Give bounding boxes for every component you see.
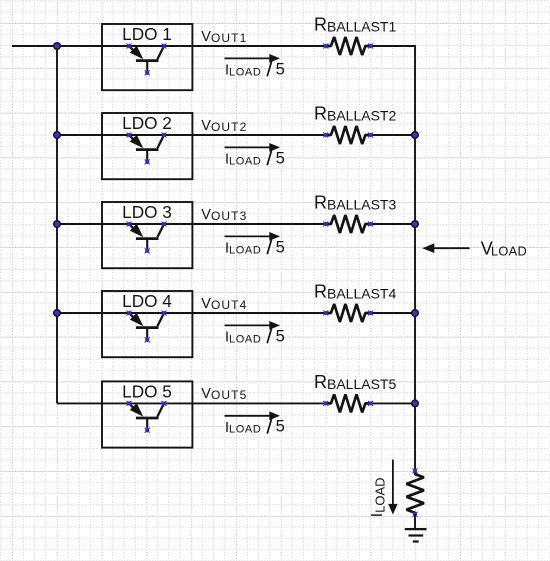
pin marker Q4 collector bbox=[162, 311, 167, 316]
wire row 5 horizontal bbox=[57, 402, 326, 404]
ground bbox=[405, 529, 427, 541]
pin marker Q4 base bbox=[145, 337, 150, 342]
svg-text:VOUT3: VOUT3 bbox=[201, 207, 247, 223]
svg-text:VOUT1: VOUT1 bbox=[201, 29, 247, 45]
pin marker RBALLAST4 left bbox=[323, 311, 328, 316]
wire left input rail bbox=[56, 46, 58, 403]
pin marker RBALLAST2 right bbox=[368, 133, 373, 138]
svg-text:5: 5 bbox=[276, 59, 285, 78]
label ILOAD/5 row 2 bbox=[225, 148, 285, 167]
current arrow ILOAD/5 row 1 bbox=[225, 54, 281, 63]
resistor RBALLAST4 bbox=[326, 304, 371, 322]
pin marker Q2 base bbox=[145, 159, 150, 164]
svg-text:LDO 1: LDO 1 bbox=[122, 24, 172, 44]
transistor Q4 (PNP pass device) bbox=[129, 313, 164, 338]
pin marker RBALLAST4 right bbox=[368, 311, 373, 316]
wire row 1 horizontal bbox=[57, 45, 326, 47]
LDO 3 block U3 bbox=[102, 202, 192, 268]
wire row 2 horizontal bbox=[57, 134, 326, 136]
pin marker RBALLAST3 right bbox=[368, 222, 373, 227]
current arrow ILOAD/5 row 5 bbox=[225, 411, 281, 420]
svg-text:5: 5 bbox=[276, 148, 285, 167]
pin marker Q5 collector bbox=[162, 401, 167, 406]
pin marker Q3 base bbox=[145, 248, 150, 253]
LDO 4 block U4 bbox=[102, 291, 192, 357]
svg-text:VOUT4: VOUT4 bbox=[201, 296, 247, 312]
pin marker Q2 collector bbox=[162, 133, 167, 138]
junction right bus row 5 bbox=[411, 399, 419, 407]
wire row 1 resistor to bus bbox=[371, 45, 416, 47]
pin marker RLOAD top bbox=[413, 468, 418, 473]
current arrow ILOAD/5 row 3 bbox=[225, 232, 281, 241]
resistor RBALLAST5 bbox=[326, 394, 371, 412]
wire row 3 horizontal bbox=[57, 223, 326, 225]
label ILOAD/5 row 1 bbox=[225, 59, 285, 78]
pin marker Q1 collector bbox=[162, 44, 167, 49]
wire right VLOAD bus bbox=[414, 46, 416, 472]
pin marker RBALLAST1 right bbox=[368, 44, 373, 49]
svg-text:ILOAD: ILOAD bbox=[369, 477, 388, 517]
arrow VLOAD bbox=[422, 243, 469, 253]
pin marker Q3 emitter bbox=[127, 222, 132, 227]
wire row 4 resistor to bus bbox=[371, 312, 416, 314]
svg-text:VOUT5: VOUT5 bbox=[201, 386, 247, 402]
junction left rail row 2 bbox=[53, 131, 61, 139]
pin marker RLOAD bottom bbox=[413, 512, 418, 517]
pin marker Q5 base bbox=[145, 428, 150, 433]
pin marker RBALLAST3 left bbox=[323, 222, 328, 227]
junction right bus row 4 bbox=[411, 309, 419, 317]
wire row 2 resistor to bus bbox=[371, 134, 416, 136]
current arrow ILOAD bbox=[388, 460, 397, 515]
wire row 4 horizontal bbox=[57, 312, 326, 314]
transistor Q1 (PNP pass device) bbox=[129, 46, 164, 71]
pin marker Q2 emitter bbox=[127, 133, 132, 138]
label ILOAD/5 row 5 bbox=[225, 417, 285, 436]
junction right bus row 2 bbox=[411, 131, 419, 139]
transistor Q5 (PNP pass device) bbox=[129, 403, 164, 428]
junction right bus row 3 bbox=[411, 220, 419, 228]
wire row 3 resistor to bus bbox=[371, 223, 416, 225]
LDO 1 block U1 bbox=[102, 24, 192, 90]
junction left rail row 1 bbox=[53, 42, 61, 50]
pin marker RBALLAST5 left bbox=[323, 401, 328, 406]
svg-text:LDO 3: LDO 3 bbox=[122, 202, 172, 222]
wire row 5 resistor to bus bbox=[371, 402, 416, 404]
transistor Q3 (PNP pass device) bbox=[129, 224, 164, 249]
pin marker RBALLAST5 right bbox=[368, 401, 373, 406]
svg-text:LDO 5: LDO 5 bbox=[122, 382, 172, 402]
svg-text:LDO 4: LDO 4 bbox=[122, 291, 172, 311]
wire input stub bbox=[12, 45, 57, 47]
svg-text:5: 5 bbox=[276, 417, 285, 436]
pin marker RBALLAST1 left bbox=[323, 44, 328, 49]
resistor RBALLAST1 bbox=[326, 37, 371, 55]
junction left rail row 3 bbox=[53, 220, 61, 228]
wire RLOAD to ground bbox=[414, 514, 416, 528]
LDO 2 block U2 bbox=[102, 113, 192, 179]
label ILOAD/5 row 4 bbox=[225, 326, 285, 345]
label ILOAD/5 row 3 bbox=[225, 237, 285, 256]
resistor RBALLAST3 bbox=[326, 215, 371, 233]
svg-text:5: 5 bbox=[276, 237, 285, 256]
resistor RBALLAST2 bbox=[326, 126, 371, 144]
current arrow ILOAD/5 row 4 bbox=[225, 321, 281, 330]
junction left rail row 4 bbox=[53, 309, 61, 317]
resistor RLOAD bbox=[407, 471, 424, 514]
pin marker Q1 base bbox=[145, 70, 150, 75]
pin marker Q1 emitter bbox=[127, 44, 132, 49]
pin marker Q4 emitter bbox=[127, 311, 132, 316]
svg-text:VOUT2: VOUT2 bbox=[201, 118, 247, 134]
current arrow ILOAD/5 row 2 bbox=[225, 143, 281, 152]
pin marker RBALLAST2 left bbox=[323, 133, 328, 138]
transistor Q2 (PNP pass device) bbox=[129, 135, 164, 160]
LDO 5 block U5 bbox=[102, 381, 192, 447]
svg-text:LDO 2: LDO 2 bbox=[122, 113, 172, 133]
pin marker Q3 collector bbox=[162, 222, 167, 227]
svg-text:5: 5 bbox=[276, 326, 285, 345]
pin marker Q5 emitter bbox=[127, 401, 132, 406]
